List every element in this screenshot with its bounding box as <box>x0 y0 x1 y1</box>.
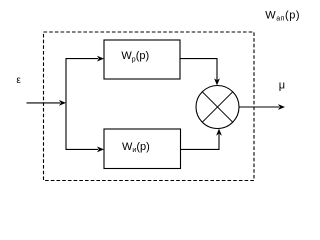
block Wp <box>104 40 180 79</box>
block Wi <box>104 129 181 169</box>
wire Wp output to multiplier <box>180 59 217 80</box>
wire branch vertical <box>65 59 67 150</box>
svg-text:ε: ε <box>16 75 21 86</box>
svg-text:Wи(p): Wи(p) <box>122 141 150 154</box>
multiplier junction circle <box>196 86 239 129</box>
dashed boundary box <box>44 32 255 181</box>
multiplier X stroke 1 <box>202 92 232 122</box>
svg-text:μ: μ <box>279 80 285 92</box>
multiplier X stroke 2 <box>202 92 232 122</box>
wire to block Wp <box>66 58 99 60</box>
svg-text:Wр(p): Wр(p) <box>121 50 149 63</box>
wire output arrow <box>239 106 279 108</box>
wire Wi output to multiplier <box>181 134 220 149</box>
wire input arrow <box>27 102 61 104</box>
wire to block Wi <box>66 148 99 150</box>
